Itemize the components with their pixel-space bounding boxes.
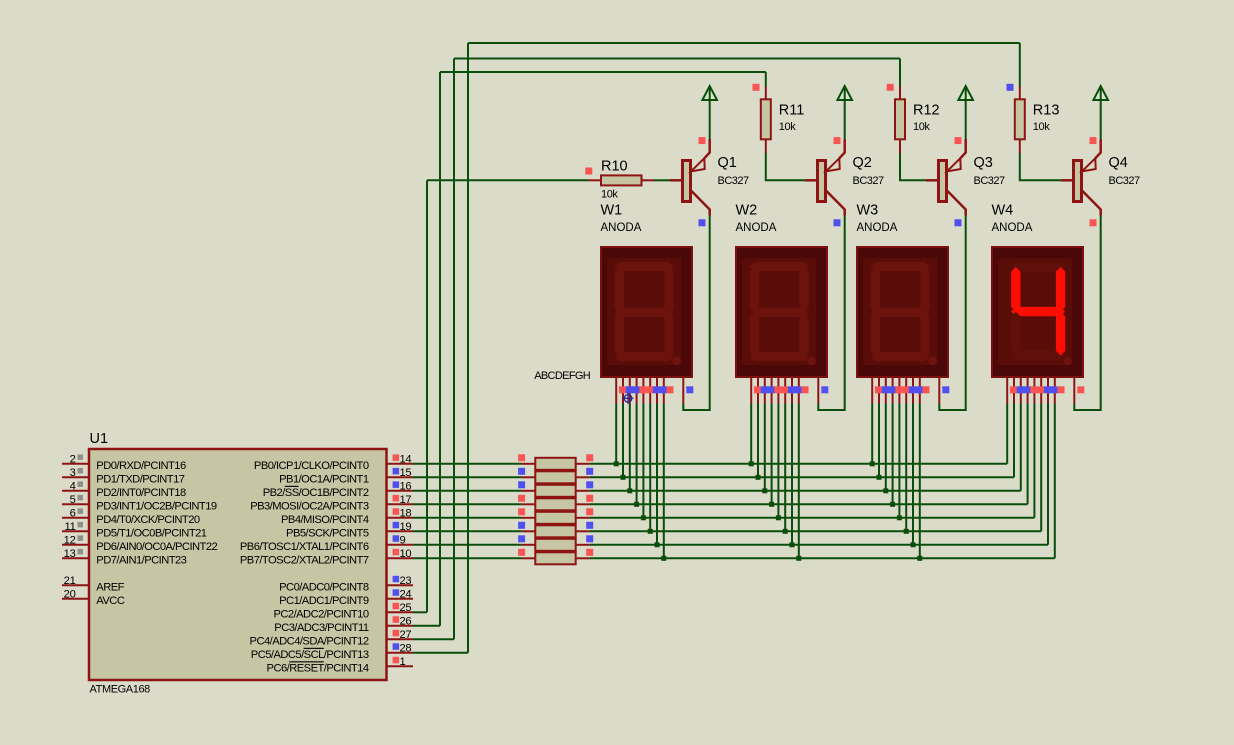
- display W3 segment pin 4 stub: [892, 377, 894, 404]
- display W1 anode pin stub: [682, 377, 684, 404]
- display W4 segment pin 6 stub: [1040, 377, 1042, 404]
- junction W2 row 6: [783, 529, 788, 534]
- display W3 segment A: [871, 262, 930, 271]
- logic-state square pin 6: [78, 508, 84, 514]
- logic-state square pin 24: [393, 589, 400, 596]
- svg-text:3: 3: [70, 467, 76, 479]
- svg-text:PD7/AIN1/PCINT23: PD7/AIN1/PCINT23: [96, 554, 186, 566]
- resistor row 7 left pin: [522, 544, 536, 546]
- logic-state square pin 16: [393, 481, 400, 488]
- wire display W1 segment pin 1 vertical: [615, 404, 617, 464]
- pin 17 stub right: [387, 503, 414, 505]
- wire display W1 segment pin 2 vertical: [622, 404, 624, 478]
- pin 16 stub right: [387, 490, 414, 492]
- resistor row 4 left pin: [522, 503, 536, 505]
- display W3 bottom logic-state squares: [875, 386, 882, 393]
- logic-state square resistor row 2 right: [586, 468, 593, 475]
- svg-text:R10: R10: [601, 159, 628, 175]
- wire segment bus row 3 horizontal: [590, 490, 1021, 492]
- svg-text:19: 19: [400, 521, 412, 533]
- svg-text:ATMEGA168: ATMEGA168: [90, 684, 151, 696]
- svg-text:23: 23: [400, 575, 412, 587]
- display W2 segment pin 6 stub: [784, 377, 786, 404]
- wire display W3 segment pin 7 vertical: [912, 404, 914, 545]
- wire display W2 segment pin 2 vertical: [757, 404, 759, 478]
- transistor Q2 base bar: [818, 161, 826, 202]
- logic-state square pin 25: [393, 603, 400, 610]
- logic-state square resistor row 6 left: [518, 522, 525, 529]
- wire display W4 segment pin 5 vertical: [1033, 404, 1035, 518]
- logic-state square W2 anode pin: [821, 386, 828, 393]
- wire display W4 segment pin 4 vertical: [1027, 404, 1029, 505]
- display W4 segment pin 2 stub: [1013, 377, 1015, 404]
- display W2 face: [742, 258, 816, 365]
- display W4 segment pin 7 stub: [1047, 377, 1049, 404]
- junction W1 row 2: [621, 475, 626, 480]
- resistor row 3 right pin: [576, 490, 590, 492]
- logic-state square resistor row 3 right: [586, 481, 593, 488]
- resistor row 5 body: [535, 512, 575, 524]
- wire R10 to Q1 base: [654, 179, 670, 181]
- pin 24 stub right: [387, 598, 414, 600]
- wire display W2 segment pin 4 vertical: [771, 404, 773, 505]
- junction W2 row 2: [756, 475, 761, 480]
- wire display W4 segment pin 1 vertical: [1006, 404, 1008, 464]
- display W2 segment C: [799, 312, 808, 356]
- junction W3 row 4: [890, 502, 895, 507]
- wire PB3 pin to resistor row 4: [413, 503, 522, 505]
- logic-state square pin 11: [78, 522, 84, 528]
- svg-text:ANODA: ANODA: [601, 222, 642, 234]
- logic-state square R11 top: [753, 84, 760, 91]
- display W1 body: [601, 247, 692, 377]
- svg-text:16: 16: [400, 480, 412, 492]
- transistor Q3 base pin: [926, 179, 939, 182]
- pin 14 stub right: [387, 463, 414, 465]
- resistor row 4 body: [535, 498, 575, 510]
- svg-text:PC5/ADC5/SCL/PCINT13: PC5/ADC5/SCL/PCINT13: [251, 649, 369, 661]
- display W3 decimal point: [928, 357, 937, 366]
- logic-state square Q1 collector: [699, 219, 706, 226]
- logic-state square R10 left: [585, 168, 592, 175]
- resistor row 6 body: [535, 525, 575, 537]
- wire display W4 segment pin 3 vertical: [1020, 404, 1022, 491]
- transistor Q1 emitter: [704, 139, 709, 158]
- logic-state square pin 12: [78, 535, 84, 541]
- pin 12 (PD6) stub left: [62, 544, 89, 546]
- svg-text:10: 10: [400, 548, 412, 560]
- pin 19 stub right: [387, 530, 414, 532]
- junction W2 row 1: [749, 461, 754, 466]
- display W1 segment pin 7 stub: [656, 377, 658, 404]
- logic-state square resistor row 4 right: [586, 495, 593, 502]
- display W3 face: [863, 258, 937, 365]
- junction W3 row 6: [904, 529, 909, 534]
- display W1 segment pin 6 stub: [649, 377, 651, 404]
- logic-state square Q3 emitter: [955, 137, 962, 144]
- wire display W2 segment pin 3 vertical: [764, 404, 766, 491]
- display W3 segment pin 2 stub: [878, 377, 880, 404]
- resistor R12 body: [895, 99, 905, 139]
- pin 10 stub right: [387, 557, 414, 559]
- logic-state square resistor row 6 right: [586, 522, 593, 529]
- junction W3 row 7: [911, 542, 916, 547]
- logic-state square Q4 emitter: [1090, 137, 1097, 144]
- resistor row 4 right pin: [576, 503, 590, 505]
- wire PB0 pin to resistor row 1: [413, 463, 522, 465]
- logic-state square pin 19: [393, 522, 400, 529]
- svg-text:18: 18: [400, 507, 412, 519]
- pin 27 stub right: [387, 638, 414, 640]
- display W1 segment pin 5 stub: [642, 377, 644, 404]
- display W4 segment G: [1011, 307, 1065, 316]
- display W1 segment C: [664, 312, 673, 356]
- pin 23 stub right: [387, 584, 414, 586]
- svg-text:PC3/ADC3/PCINT11: PC3/ADC3/PCINT11: [274, 622, 369, 634]
- display W3 segment E: [871, 312, 880, 356]
- junction W3 row 1: [870, 461, 875, 466]
- display W4 segment pin 1 stub: [1006, 377, 1008, 404]
- junction W2 row 5: [776, 515, 781, 520]
- svg-text:10k: 10k: [779, 121, 796, 133]
- wire collector Q2 to W2 anode: [818, 216, 844, 411]
- logic-state square W4 anode pin: [1077, 386, 1084, 393]
- resistor R13 bottom pin: [1019, 139, 1021, 153]
- svg-text:1: 1: [400, 656, 406, 668]
- display W1 segment pin 2 stub: [622, 377, 624, 404]
- junction W1 row 6: [648, 529, 653, 534]
- display W1 segment A: [615, 262, 674, 271]
- wire R12 to Q3 base: [900, 153, 926, 180]
- svg-text:ANODA: ANODA: [992, 222, 1033, 234]
- IC U1 ATMEGA168 body: [89, 449, 387, 680]
- junction W1 row 5: [641, 515, 646, 520]
- pin 6 (PD4) stub left: [62, 517, 89, 519]
- svg-text:W4: W4: [992, 203, 1014, 219]
- logic-state square R12 top: [887, 84, 894, 91]
- display W2 segment pin 2 stub: [757, 377, 759, 404]
- svg-text:27: 27: [400, 629, 412, 641]
- resistor R10 body: [601, 175, 642, 185]
- wire vertical riser x=468: [467, 43, 469, 653]
- display W4 segment D: [1011, 351, 1065, 360]
- logic-state square pin 27: [393, 630, 400, 637]
- svg-text:PB3/MOSI/OC2A/PCINT3: PB3/MOSI/OC2A/PCINT3: [250, 500, 369, 512]
- svg-text:Q2: Q2: [853, 155, 872, 171]
- svg-text:ABCDEFGH: ABCDEFGH: [534, 370, 591, 382]
- svg-text:PC1/ADC1/PCINT9: PC1/ADC1/PCINT9: [279, 595, 369, 607]
- power symbol above Q1: [702, 86, 717, 100]
- wire PC5 pin to vertical riser: [413, 652, 468, 654]
- resistor R13 top pin: [1019, 87, 1021, 100]
- wire PC4 pin to vertical riser: [413, 638, 454, 640]
- origin marker on W1 pin: [623, 393, 634, 404]
- pin 3 (PD1) stub left: [62, 476, 89, 478]
- display W4 segment pin 3 stub: [1020, 377, 1022, 404]
- display W2 segment pin 1 stub: [750, 377, 752, 404]
- resistor R13 body: [1015, 99, 1025, 139]
- wire PB6 pin to resistor row 7: [413, 544, 522, 546]
- pin 15 stub right: [387, 476, 414, 478]
- junction W2 row 8: [796, 556, 801, 561]
- display W3 segment F: [871, 267, 880, 313]
- logic-state square resistor row 8 right: [586, 549, 593, 556]
- logic-state square R13 top: [1007, 84, 1014, 91]
- resistor row 8 right pin: [576, 557, 590, 559]
- svg-text:W3: W3: [857, 203, 879, 219]
- display W4 body: [992, 247, 1083, 377]
- svg-text:10k: 10k: [913, 121, 930, 133]
- svg-text:PD5/T1/OC0B/PCINT21: PD5/T1/OC0B/PCINT21: [96, 527, 206, 539]
- pin 28 stub right: [387, 652, 414, 654]
- transistor Q2 emitter arrow (PNP): [826, 158, 840, 171]
- transistor Q1 collector: [691, 190, 710, 216]
- resistor row 2 right pin: [576, 476, 590, 478]
- svg-text:ANODA: ANODA: [857, 222, 898, 234]
- resistor row 3 left pin: [522, 490, 536, 492]
- wire display W2 segment pin 6 vertical: [784, 404, 786, 532]
- resistor row 5 right pin: [576, 517, 590, 519]
- logic-state square pin 23: [393, 576, 400, 583]
- svg-text:17: 17: [400, 494, 412, 506]
- display W3 segment B: [920, 267, 929, 313]
- svg-text:4: 4: [70, 480, 76, 492]
- svg-text:BC327: BC327: [974, 175, 1006, 187]
- display W3 segment pin 7 stub: [912, 377, 914, 404]
- display W2 segment E: [750, 312, 759, 356]
- display W1 segment E: [615, 312, 624, 356]
- svg-text:AVCC: AVCC: [96, 595, 125, 607]
- display W4 segment F: [1011, 267, 1020, 312]
- wire display W3 segment pin 1 vertical: [871, 404, 873, 464]
- display W2 segment B: [799, 267, 808, 313]
- wire segment bus row 7 horizontal: [590, 544, 1048, 546]
- display W4 segment A: [1011, 262, 1065, 271]
- resistor row 1 body: [535, 458, 575, 470]
- svg-text:10k: 10k: [601, 189, 618, 201]
- svg-text:28: 28: [400, 642, 412, 654]
- wire display W1 segment pin 4 vertical: [636, 404, 638, 505]
- display W2 segment D: [750, 352, 809, 361]
- logic-state square resistor row 7 right: [586, 535, 593, 542]
- wire drop to R11 top: [765, 72, 767, 87]
- svg-text:25: 25: [400, 602, 412, 614]
- wire emitter Q2 to power: [844, 99, 846, 139]
- display W1 segment pin 3 stub: [629, 377, 631, 404]
- pin 4 (PD2) stub left: [62, 490, 89, 492]
- wire PC2 pin to vertical riser: [413, 611, 427, 613]
- svg-text:R11: R11: [779, 103, 805, 119]
- logic-state square resistor row 1 right: [586, 454, 593, 461]
- logic-state square pin 15: [393, 468, 400, 475]
- display W1 segment B: [664, 267, 673, 313]
- wire collector Q4 to W4 anode: [1074, 216, 1100, 411]
- svg-text:PD3/INT1/OC2B/PCINT19: PD3/INT1/OC2B/PCINT19: [96, 500, 217, 512]
- display W2 segment G: [750, 308, 809, 317]
- logic-state square resistor row 1 left: [518, 454, 525, 461]
- wire display W4 segment pin 2 vertical: [1013, 404, 1015, 478]
- svg-text:21: 21: [64, 575, 76, 587]
- resistor row 8 left pin: [522, 557, 536, 559]
- display W1 segment pin 1 stub: [615, 377, 617, 404]
- wire segment bus row 4 horizontal: [590, 503, 1028, 505]
- wire horizontal run y=43: [468, 42, 1020, 44]
- wire segment bus row 8 horizontal: [590, 557, 1055, 559]
- logic-state square Q2 collector: [834, 219, 841, 226]
- power symbol above Q2: [837, 86, 852, 100]
- wire horizontal run y=180.3: [427, 179, 589, 181]
- transistor Q4 base pin: [1061, 179, 1074, 182]
- junction W1 row 4: [634, 502, 639, 507]
- svg-text:U1: U1: [90, 431, 109, 447]
- logic-state square Q1 emitter: [699, 137, 706, 144]
- logic-state square resistor row 3 left: [518, 481, 525, 488]
- svg-text:R13: R13: [1033, 103, 1060, 119]
- display W3 segment pin 5 stub: [898, 377, 900, 404]
- wire display W3 segment pin 8 vertical: [919, 404, 921, 559]
- logic-state square W1 anode pin: [686, 386, 693, 393]
- wire display W1 segment pin 6 vertical: [649, 404, 651, 532]
- svg-text:PC0/ADC0/PCINT8: PC0/ADC0/PCINT8: [279, 581, 369, 593]
- junction W1 row 1: [614, 461, 619, 466]
- display W1 bottom logic-state squares: [619, 386, 626, 393]
- display W1 segment pin 4 stub: [636, 377, 638, 404]
- resistor R12 bottom pin: [899, 139, 901, 153]
- logic-state square resistor row 5 right: [586, 508, 593, 515]
- power symbol above Q3: [958, 86, 973, 100]
- wire collector Q3 to W3 anode: [939, 216, 965, 411]
- svg-text:11: 11: [64, 521, 75, 533]
- resistor row 5 left pin: [522, 517, 536, 519]
- display W1 segment G: [615, 308, 674, 317]
- wire collector Q1 to W1 anode: [683, 216, 709, 411]
- logic-state square pin 1: [393, 657, 400, 664]
- svg-text:20: 20: [64, 588, 76, 600]
- transistor Q2 collector: [826, 190, 845, 216]
- wire R13 to Q4 base: [1020, 153, 1061, 180]
- resistor row 6 left pin: [522, 530, 536, 532]
- logic-state square pin 18: [393, 508, 400, 515]
- logic-state square pin 3: [78, 468, 84, 474]
- display W3 segment pin 1 stub: [871, 377, 873, 404]
- svg-text:Q3: Q3: [974, 155, 993, 171]
- wire vertical riser x=427: [426, 180, 428, 612]
- junction W1 row 8: [661, 556, 666, 561]
- logic-state square Q3 collector: [955, 219, 962, 226]
- svg-text:Q1: Q1: [718, 155, 737, 171]
- svg-text:W1: W1: [601, 203, 623, 219]
- wire display W2 segment pin 5 vertical: [777, 404, 779, 518]
- svg-text:R12: R12: [913, 103, 940, 119]
- logic-state square W3 anode pin: [942, 386, 949, 393]
- pin 1 stub right: [387, 665, 414, 667]
- logic-state square pin 26: [393, 616, 400, 623]
- logic-state square resistor row 2 left: [518, 468, 525, 475]
- display W1 decimal point: [672, 357, 681, 366]
- logic-state square Q2 emitter: [834, 137, 841, 144]
- svg-text:5: 5: [70, 494, 76, 506]
- junction W2 row 3: [762, 488, 767, 493]
- logic-state square resistor row 8 left: [518, 549, 525, 556]
- resistor row 1 right pin: [576, 463, 590, 465]
- svg-text:AREF: AREF: [96, 581, 124, 593]
- wire display W3 segment pin 4 vertical: [892, 404, 894, 505]
- wire display W4 segment pin 6 vertical: [1040, 404, 1042, 532]
- resistor row 6 right pin: [576, 530, 590, 532]
- display W2 segment pin 5 stub: [777, 377, 779, 404]
- junction W3 row 5: [897, 515, 902, 520]
- transistor Q4 collector: [1082, 190, 1101, 216]
- svg-text:26: 26: [400, 615, 412, 627]
- wire PB2 pin to resistor row 3: [413, 490, 522, 492]
- transistor Q3 emitter: [960, 139, 965, 158]
- svg-text:PC4/ADC4/SDA/PCINT12: PC4/ADC4/SDA/PCINT12: [250, 635, 369, 647]
- power symbol above Q4: [1093, 86, 1108, 100]
- wire display W2 segment pin 1 vertical: [750, 404, 752, 464]
- display W1 segment pin 8 stub: [663, 377, 665, 404]
- svg-text:12: 12: [64, 534, 76, 546]
- display W4 segment pin 8 stub: [1054, 377, 1056, 404]
- wire emitter Q3 to power: [965, 99, 967, 139]
- logic-state square pin 14: [393, 454, 400, 461]
- wire drop to R13 top: [1019, 43, 1021, 87]
- svg-text:PB6/TOSC1/XTAL1/PCINT6: PB6/TOSC1/XTAL1/PCINT6: [240, 541, 369, 553]
- display W2 segment pin 7 stub: [791, 377, 793, 404]
- svg-text:PD1/TXD/PCINT17: PD1/TXD/PCINT17: [96, 473, 184, 485]
- display W1 face: [607, 258, 681, 365]
- wire display W4 segment pin 8 vertical: [1054, 404, 1056, 559]
- wire PB7 pin to resistor row 8: [413, 557, 522, 559]
- logic-state square resistor row 5 left: [518, 508, 525, 515]
- display W2 anode pin stub: [817, 377, 819, 404]
- svg-text:BC327: BC327: [853, 175, 885, 187]
- wire PB4 pin to resistor row 5: [413, 517, 522, 519]
- resistor row 8 body: [535, 552, 575, 564]
- display W3 segment D: [871, 352, 930, 361]
- svg-text:W2: W2: [736, 203, 758, 219]
- display W4 segment C: [1056, 312, 1065, 356]
- svg-text:24: 24: [400, 588, 412, 600]
- wire segment bus row 5 horizontal: [590, 517, 1035, 519]
- wire display W2 segment pin 8 vertical: [798, 404, 800, 559]
- wire horizontal run y=58.5: [454, 58, 900, 60]
- svg-text:PD6/AIN0/OC0A/PCINT22: PD6/AIN0/OC0A/PCINT22: [96, 541, 217, 553]
- logic-state square pin 10: [393, 549, 400, 556]
- junction W3 row 8: [917, 556, 922, 561]
- wire PB1 pin to resistor row 2: [413, 476, 522, 478]
- display W3 segment pin 8 stub: [919, 377, 921, 404]
- svg-text:14: 14: [400, 453, 412, 465]
- pin 5 (PD3) stub left: [62, 503, 89, 505]
- logic-state square resistor row 7 left: [518, 535, 525, 542]
- svg-text:9: 9: [400, 534, 406, 546]
- display W3 segment pin 6 stub: [905, 377, 907, 404]
- display W4 face: [998, 258, 1072, 365]
- svg-text:15: 15: [400, 467, 412, 479]
- transistor Q1 base bar: [683, 161, 691, 202]
- display W4 decimal point: [1063, 357, 1072, 366]
- svg-text:PB7/TOSC2/XTAL2/PCINT7: PB7/TOSC2/XTAL2/PCINT7: [240, 554, 369, 566]
- transistor Q1 base pin: [670, 179, 683, 182]
- wire display W3 segment pin 3 vertical: [885, 404, 887, 491]
- resistor row 2 left pin: [522, 476, 536, 478]
- wire R11 to Q2 base: [766, 153, 805, 180]
- svg-text:ANODA: ANODA: [736, 222, 777, 234]
- logic-state square pin 13: [78, 549, 84, 555]
- pin 13 (PD7) stub left: [62, 557, 89, 559]
- resistor R11 bottom pin: [765, 139, 767, 153]
- wire display W1 segment pin 5 vertical: [642, 404, 644, 518]
